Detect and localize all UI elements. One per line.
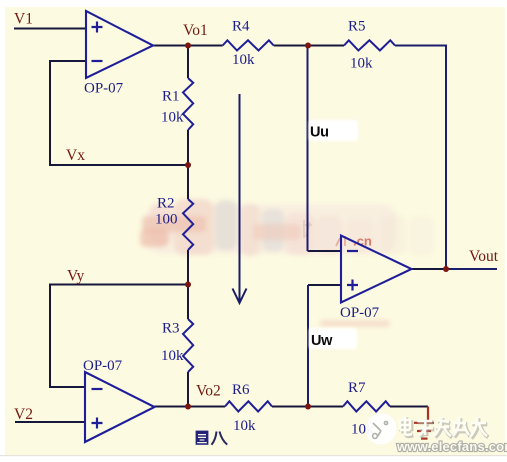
- svg-text:Vo1: Vo1: [183, 22, 208, 39]
- svg-text:10k: 10k: [161, 348, 184, 364]
- svg-text:10k: 10k: [161, 110, 184, 126]
- svg-text:R4: R4: [232, 19, 250, 35]
- svg-text:10k: 10k: [233, 418, 256, 434]
- svg-text:Vout: Vout: [469, 248, 499, 265]
- svg-text:OP-07: OP-07: [340, 305, 380, 321]
- svg-text:V1: V1: [14, 11, 33, 28]
- svg-text:Vx: Vx: [66, 147, 85, 164]
- svg-text:Vy: Vy: [67, 268, 84, 285]
- svg-text:R6: R6: [232, 382, 250, 398]
- svg-text:R7: R7: [348, 380, 366, 396]
- svg-text:Uu: Uu: [310, 125, 329, 141]
- svg-text:OP-07: OP-07: [83, 358, 123, 374]
- svg-text:OP-07: OP-07: [84, 81, 124, 97]
- svg-text:10k: 10k: [232, 52, 255, 68]
- svg-text:R5: R5: [348, 19, 366, 35]
- svg-text:R2: R2: [157, 196, 175, 212]
- svg-text:10k: 10k: [350, 56, 373, 72]
- svg-text:100: 100: [155, 212, 178, 228]
- svg-text:R3: R3: [162, 321, 180, 337]
- svg-text:www.elecfans.com: www.elecfans.com: [396, 439, 507, 454]
- svg-text:Vo2: Vo2: [196, 383, 221, 400]
- svg-text:R1: R1: [162, 89, 180, 105]
- svg-text:Uw: Uw: [311, 333, 333, 349]
- svg-text:V2: V2: [14, 406, 33, 423]
